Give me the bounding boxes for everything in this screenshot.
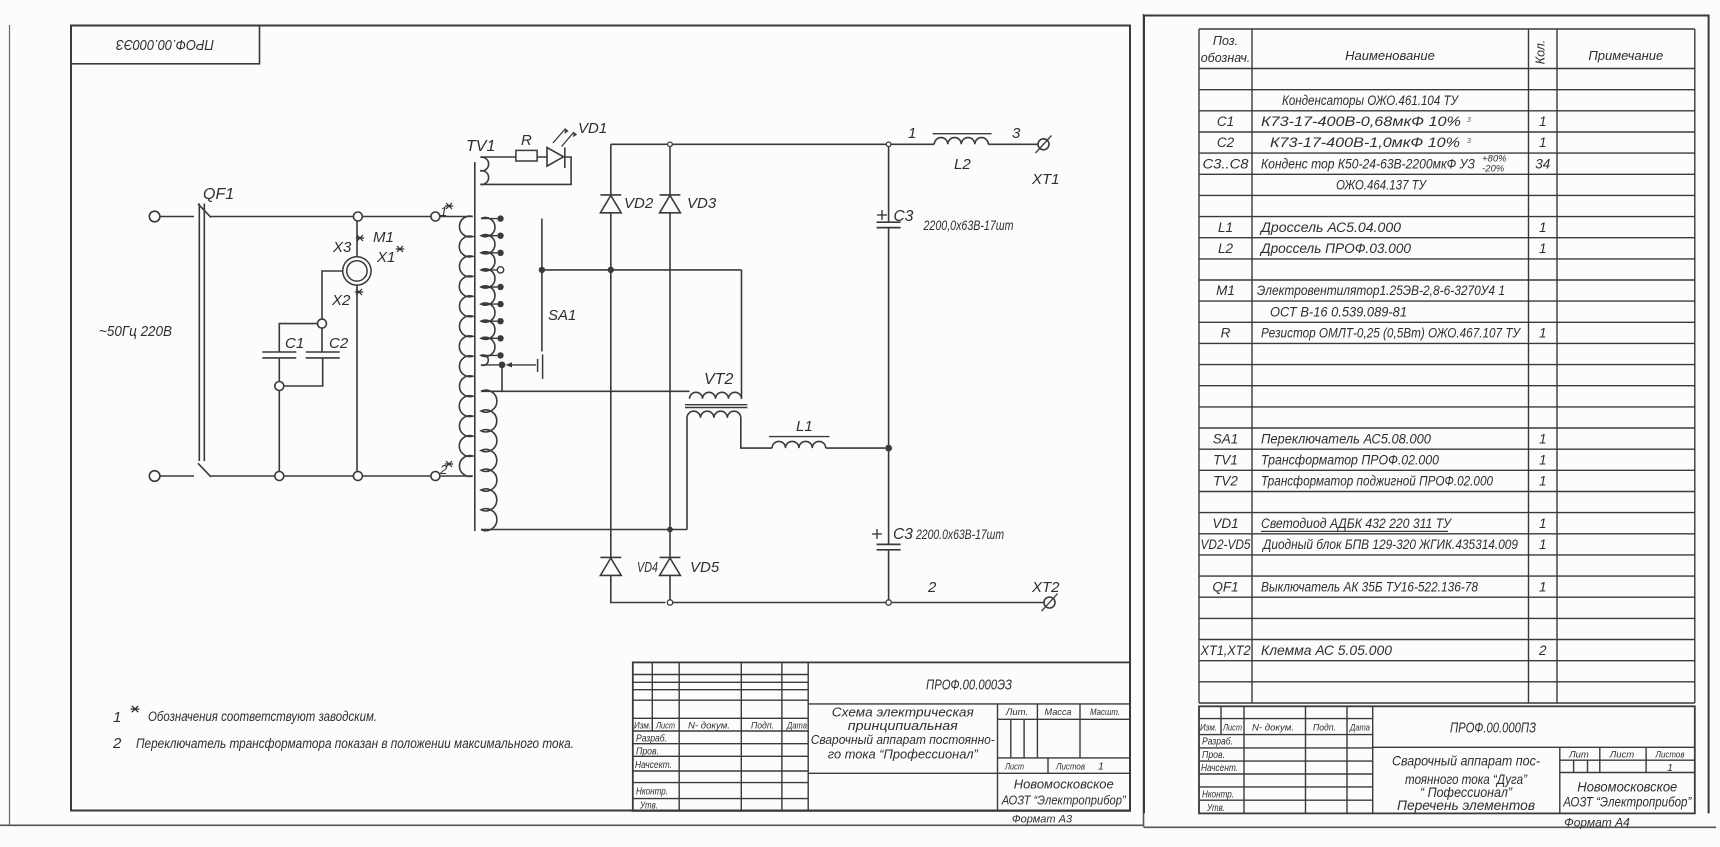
svg-text:Диодный блок БПВ 129-320 Ж: Диодный блок БПВ 129-320 ЖГИК.435314.009	[1261, 537, 1518, 552]
node X3 contact on top bus	[353, 212, 362, 221]
wire C3 column lower to bottom bus	[888, 550, 890, 600]
svg-text:Перечень элементов: Перечень элементов	[1397, 797, 1535, 813]
A3 drawing frame	[71, 26, 1130, 811]
svg-text:Нконтр.: Нконтр.	[636, 787, 668, 798]
svg-text:Конденс тор К50-24-63В-2200мкФ: Конденс тор К50-24-63В-2200мкФ УЗ	[1261, 156, 1476, 171]
bottom output bus	[673, 602, 886, 604]
open junction top of C3 column	[886, 142, 891, 147]
svg-text:Сварочный аппарат постоянно-: Сварочный аппарат постоянно-	[811, 732, 996, 747]
svg-text:Пров.: Пров.	[636, 747, 659, 758]
svg-text:Клемма АС 5.05.000: Клемма АС 5.05.000	[1261, 643, 1392, 658]
wire VT2 secondary right down to L1	[741, 418, 772, 448]
svg-text:Разраб.: Разраб.	[1202, 736, 1233, 748]
svg-text:X3: X3	[332, 239, 352, 256]
TV1 secondary bottom tap (wiper position)	[481, 364, 499, 366]
svg-text:2200,0х63В-17шт: 2200,0х63В-17шт	[923, 217, 1014, 233]
diode VD3	[660, 194, 681, 196]
svg-text:ПРОФ.00.000ПЗ: ПРОФ.00.000ПЗ	[1450, 721, 1536, 737]
svg-text:Утв.: Утв.	[639, 801, 658, 812]
svg-text:VD2-VD5: VD2-VD5	[1201, 537, 1251, 552]
svg-text:Пров.: Пров.	[1202, 750, 1225, 761]
junction SA1 wire with VD2 line	[608, 267, 614, 273]
svg-text:М1: М1	[1216, 283, 1235, 298]
contact node above C2	[318, 319, 327, 328]
svg-text:принципиальная: принципиальная	[848, 718, 958, 733]
svg-text:С3: С3	[893, 526, 913, 543]
wire top bus to L2	[891, 143, 934, 145]
wire C3 column upper	[888, 147, 890, 223]
capacitor C1	[262, 351, 296, 353]
capacitor bank C3 lower	[877, 543, 901, 545]
svg-text:Листов: Листов	[1055, 762, 1085, 773]
wire motor M1 left to capacitor node	[322, 271, 343, 319]
output terminal XT2	[1044, 597, 1055, 608]
contact node under C1	[275, 382, 284, 391]
wire L2 to XT1	[988, 143, 1039, 145]
wire VD3 junction to VD5	[669, 530, 671, 558]
wire node to C1 top	[279, 324, 317, 352]
svg-text:2: 2	[927, 579, 937, 596]
svg-text:С2: С2	[329, 335, 349, 352]
svg-text:VT2: VT2	[704, 371, 733, 388]
wire VT2 primary right end up to SA1 wire	[741, 270, 743, 399]
wire VD4 to bottom output bus	[611, 575, 666, 602]
svg-text:VD5: VD5	[690, 559, 720, 576]
svg-text:Формат А3: Формат А3	[1012, 814, 1073, 826]
scan divider between A3 and A4 sheets	[1143, 14, 1145, 827]
svg-text:Утв.: Утв.	[1206, 803, 1225, 814]
svg-text:34: 34	[1535, 156, 1550, 171]
svg-text:Трансформатор ПРОФ.02.000: Трансформатор ПРОФ.02.000	[1261, 452, 1439, 467]
svg-text:VD2: VD2	[624, 195, 654, 212]
svg-text:Нконтр.: Нконтр.	[1202, 790, 1234, 801]
svg-text:TV2: TV2	[1213, 474, 1238, 489]
input terminal bottom (N)	[149, 471, 160, 482]
terminal contact 1*	[431, 212, 440, 221]
wire motor M1 bottom to node X2 on bottom bus	[356, 285, 358, 471]
svg-text:Сварочный аппарат пос-: Сварочный аппарат пос-	[1392, 753, 1540, 769]
svg-text:Дата: Дата	[1349, 723, 1370, 734]
wire LED VD1 loop back to winding	[481, 157, 572, 184]
svg-text:Обозначения соответствуют за: Обозначения соответствуют заводским.	[148, 709, 377, 724]
svg-text:ПРОФ.00.000ЭЗ: ПРОФ.00.000ЭЗ	[116, 36, 214, 53]
junction on SA1 selector line	[539, 267, 545, 273]
svg-text:ОСТ В-16 0.539.089-81: ОСТ В-16 0.539.089-81	[1270, 304, 1407, 319]
svg-text:ПРОФ.00.000ЭЗ: ПРОФ.00.000ЭЗ	[926, 678, 1012, 694]
svg-text:Конденсаторы ОЖО.461.104 ТУ: Конденсаторы ОЖО.461.104 ТУ	[1282, 93, 1459, 108]
svg-text:VD4: VD4	[637, 559, 658, 576]
wire top bus node to terminal 1	[362, 216, 431, 218]
VT2 core	[685, 404, 747, 406]
wire input bottom to QF1	[159, 475, 194, 477]
svg-text:2: 2	[1538, 643, 1547, 658]
svg-text:1: 1	[1539, 474, 1547, 489]
svg-text:L2: L2	[1218, 241, 1234, 256]
wire input top to QF1	[159, 216, 194, 218]
wire TV1 aux winding to resistor R	[481, 156, 516, 158]
svg-text:АОЗТ “Электроприбор”: АОЗТ “Электроприбор”	[1562, 795, 1691, 810]
svg-text:Подп.: Подп.	[751, 721, 774, 732]
open junction C3 on bottom bus	[886, 600, 891, 605]
svg-text:Наименование: Наименование	[1345, 48, 1435, 63]
wire TV1 wiper tap down to VT2 feed wire	[501, 368, 503, 390]
svg-text:1: 1	[1539, 241, 1547, 256]
wire TV1 power winding bottom to VT2 secondary	[481, 529, 687, 531]
contact node on bottom bus under C1	[275, 472, 284, 481]
wire top output bus	[611, 143, 886, 145]
svg-text:К73-17-400В-1,0мкФ 10%: К73-17-400В-1,0мкФ 10%	[1270, 135, 1460, 150]
wire TV1 power winding top to VT2 primary	[481, 390, 690, 392]
svg-text:Изм.: Изм.	[1200, 723, 1217, 734]
svg-text:-20%: -20%	[1482, 163, 1505, 174]
svg-text:Начсект.: Начсект.	[635, 760, 672, 771]
VT2 secondary winding	[687, 411, 741, 418]
svg-text:1: 1	[1539, 579, 1547, 594]
svg-text:К73-17-400В-0,68мкФ 10%: К73-17-400В-0,68мкФ 10%	[1261, 114, 1461, 129]
svg-text:Переключатель трансформатора: Переключатель трансформатора показан в п…	[136, 736, 574, 751]
choke L2	[934, 138, 988, 145]
svg-text:SA1: SA1	[548, 307, 576, 324]
svg-text:1: 1	[1098, 761, 1104, 773]
wire VD2 anode down to VD4	[610, 213, 612, 558]
terminal contact 2*	[431, 472, 440, 481]
open junction VD5 on bottom bus	[667, 600, 672, 605]
svg-text:АОЗТ “Электроприбор”: АОЗТ “Электроприбор”	[1001, 793, 1126, 808]
svg-text:1: 1	[113, 709, 121, 726]
svg-text:L1: L1	[1218, 220, 1233, 235]
svg-text:Изм.: Изм.	[634, 721, 651, 732]
svg-text:Формат А4: Формат А4	[1564, 816, 1630, 830]
svg-text:з: з	[1466, 135, 1471, 145]
svg-text:L2: L2	[954, 156, 971, 173]
svg-text:2200.0х63В-17шт: 2200.0х63В-17шт	[915, 526, 1004, 542]
TV1 primary winding	[459, 216, 472, 476]
junction VD3 on top bus	[668, 142, 673, 147]
svg-text:TV1: TV1	[466, 138, 495, 155]
svg-text:Поз.: Поз.	[1213, 34, 1238, 48]
svg-text:1: 1	[1667, 762, 1673, 774]
switch SA1 selector line	[541, 219, 543, 352]
svg-text:С3: С3	[894, 208, 914, 225]
svg-text:~50Гц 220В: ~50Гц 220В	[99, 324, 172, 340]
svg-text:Листов: Листов	[1655, 750, 1685, 761]
svg-text:1: 1	[1539, 537, 1547, 552]
wire L1 to C3 node	[826, 447, 885, 449]
svg-text:Масса: Масса	[1045, 707, 1072, 718]
wire node X3 down to motor M1	[356, 221, 358, 257]
svg-text:2: 2	[112, 735, 122, 752]
wire C1 bottom to node	[278, 358, 280, 382]
svg-text:X1: X1	[376, 249, 395, 266]
A3 sheet paper left edge	[9, 25, 11, 825]
svg-text:Разраб.: Разраб.	[636, 733, 667, 745]
svg-text:ОЖО.464.137 ТУ: ОЖО.464.137 ТУ	[1336, 177, 1427, 192]
svg-text:1: 1	[908, 125, 916, 142]
svg-text:XT1: XT1	[1031, 171, 1060, 188]
diode VD4	[600, 556, 621, 558]
svg-text:Подп.: Подп.	[1313, 723, 1336, 734]
svg-text:Новомосковское: Новомосковское	[1014, 777, 1114, 792]
A4 sheet paper bottom edge	[1144, 826, 1717, 828]
svg-text:1: 1	[1539, 516, 1547, 531]
A3 corner stamp box with inverted doc number	[71, 26, 260, 64]
wire bottom bus node to terminal 2	[362, 475, 431, 477]
svg-text:Начсент.: Начсент.	[1201, 763, 1238, 774]
parts list table grid	[1199, 29, 1695, 703]
svg-text:1: 1	[1539, 135, 1547, 150]
svg-text:Кол.: Кол.	[1534, 40, 1548, 65]
svg-text:Дроссель ПРОФ.03.000: Дроссель ПРОФ.03.000	[1259, 241, 1412, 256]
wire bottom bus QF1 to node C1	[211, 475, 275, 477]
svg-text:N- докум.: N- докум.	[1252, 723, 1294, 734]
wire SA1 selected tap to VT2 primary	[542, 269, 742, 271]
VT2 primary winding	[690, 392, 742, 398]
wire bottom bus to node X2	[284, 475, 354, 477]
svg-text:XT1,ХТ2: XT1,ХТ2	[1200, 643, 1251, 658]
svg-text:Выключатель АК 35Б ТУ16-522: Выключатель АК 35Б ТУ16-522.136-78	[1261, 579, 1478, 594]
svg-text:1: 1	[1539, 452, 1547, 467]
svg-text:Дата: Дата	[786, 721, 807, 732]
wire VD3 top to output bus	[669, 144, 671, 195]
A4 title block grid	[1199, 706, 1695, 813]
svg-text:QF1: QF1	[203, 186, 234, 203]
svg-text:1: 1	[1539, 326, 1547, 341]
svg-text:1: 1	[1539, 220, 1547, 235]
svg-text:R: R	[1221, 326, 1231, 341]
A4 drawing frame	[1144, 16, 1709, 814]
input terminal top (L)	[149, 211, 160, 222]
svg-text:N- докум.: N- докум.	[688, 721, 730, 732]
junction VD3-VD5 line with TV1 bottom wire	[667, 527, 673, 533]
svg-text:TV1: TV1	[1213, 452, 1238, 467]
wire terminal 1 to TV1 primary	[440, 216, 473, 218]
svg-text:обознач.: обознач.	[1201, 51, 1251, 65]
svg-text:Светодиод АДБК 432 220 311: Светодиод АДБК 432 220 311 ТУ	[1261, 516, 1452, 531]
LED VD1	[547, 148, 564, 167]
svg-text:X2: X2	[331, 292, 351, 309]
node X2 contact on bottom bus	[353, 472, 362, 481]
SA1 movable contact symbol	[537, 359, 539, 372]
diode VD2	[600, 194, 621, 196]
resistor R	[516, 150, 537, 161]
svg-text:R: R	[521, 132, 532, 149]
svg-text:С3..С8: С3..С8	[1203, 156, 1250, 171]
TV1 secondary tap leads and dots	[481, 218, 497, 220]
svg-text:С2: С2	[1217, 135, 1235, 150]
wire terminal 2 to TV1 primary bottom	[440, 475, 473, 477]
svg-text:з: з	[1466, 114, 1471, 124]
svg-text:Примечание: Примечание	[1588, 48, 1663, 63]
svg-text:1: 1	[1539, 114, 1547, 129]
svg-text:VD3: VD3	[687, 195, 717, 212]
svg-text:С1: С1	[1217, 114, 1234, 129]
A3 sheet paper bottom edge	[0, 824, 1144, 826]
SA1 wiper arrow to bottom tap	[509, 364, 536, 366]
svg-text:SA1: SA1	[1213, 431, 1239, 446]
svg-text:Лист: Лист	[1222, 723, 1242, 734]
transformer TV1 core	[474, 162, 476, 531]
wire VT2 secondary left down to TV1 winding bottom wire	[686, 418, 688, 530]
svg-text:С1: С1	[285, 335, 304, 352]
capacitor bank C3 upper	[877, 221, 901, 223]
svg-text:Лит.: Лит.	[1005, 707, 1028, 718]
svg-text:L1: L1	[796, 418, 813, 435]
svg-text:Лист: Лист	[655, 721, 675, 732]
svg-text:1: 1	[1539, 431, 1547, 446]
svg-text:XT2: XT2	[1031, 579, 1060, 596]
svg-text:Масшт.: Масшт.	[1090, 707, 1120, 718]
circuit breaker QF1	[198, 204, 211, 218]
svg-text:QF1: QF1	[1212, 579, 1238, 594]
svg-text:3: 3	[1012, 125, 1021, 142]
svg-text:Трансформатор поджигной ПРОФ: Трансформатор поджигной ПРОФ.02.000	[1261, 474, 1493, 489]
wire top bus QF1 to node X3	[211, 216, 354, 218]
junction L1 with C3 column	[885, 445, 892, 452]
wire node to C2 top	[321, 328, 323, 352]
svg-text:Новомосковское: Новомосковское	[1577, 780, 1677, 795]
choke L1	[772, 441, 826, 448]
wire VD3 anode down to junction	[669, 213, 671, 530]
capacitor C2	[306, 351, 340, 353]
svg-text:VD1: VD1	[578, 120, 607, 137]
svg-text:Электровентилятор1.25ЭВ-2,8-6-: Электровентилятор1.25ЭВ-2,8-6-3270У4 1	[1257, 283, 1505, 298]
svg-text:Переключатель АС5.08.000: Переключатель АС5.08.000	[1261, 431, 1431, 446]
wire C3 column middle	[888, 228, 890, 545]
wire C2 bottom to node under C1	[284, 358, 323, 386]
svg-text:Дроссель АС5.04.000: Дроссель АС5.04.000	[1259, 220, 1402, 235]
svg-text:VD1: VD1	[1212, 516, 1238, 531]
output terminal XT1	[1038, 139, 1049, 150]
svg-text:Лист: Лист	[1609, 750, 1635, 761]
svg-text:го тока “Профессионал”: го тока “Профессионал”	[828, 747, 979, 762]
TV1 power secondary winding	[481, 390, 497, 531]
svg-text:Лист: Лист	[1004, 762, 1024, 773]
svg-text:Резистор ОМЛТ-0,25 (0,5Вт): Резистор ОМЛТ-0,25 (0,5Вт) ОЖО.467.107 Т…	[1261, 326, 1521, 341]
svg-text:М1: М1	[373, 229, 394, 246]
wire VD5 down to bus	[669, 575, 671, 599]
diode VD5	[660, 556, 681, 558]
svg-text:Лит: Лит	[1568, 750, 1589, 761]
TV1 auxiliary winding for LED	[480, 157, 488, 184]
wire VD2 top to output bus	[610, 144, 612, 195]
TV1 tapped secondary winding	[481, 218, 495, 366]
fan motor M1	[343, 257, 371, 285]
wire node under C1 down to bottom bus	[278, 391, 280, 472]
A3 title block grid	[633, 662, 1130, 811]
